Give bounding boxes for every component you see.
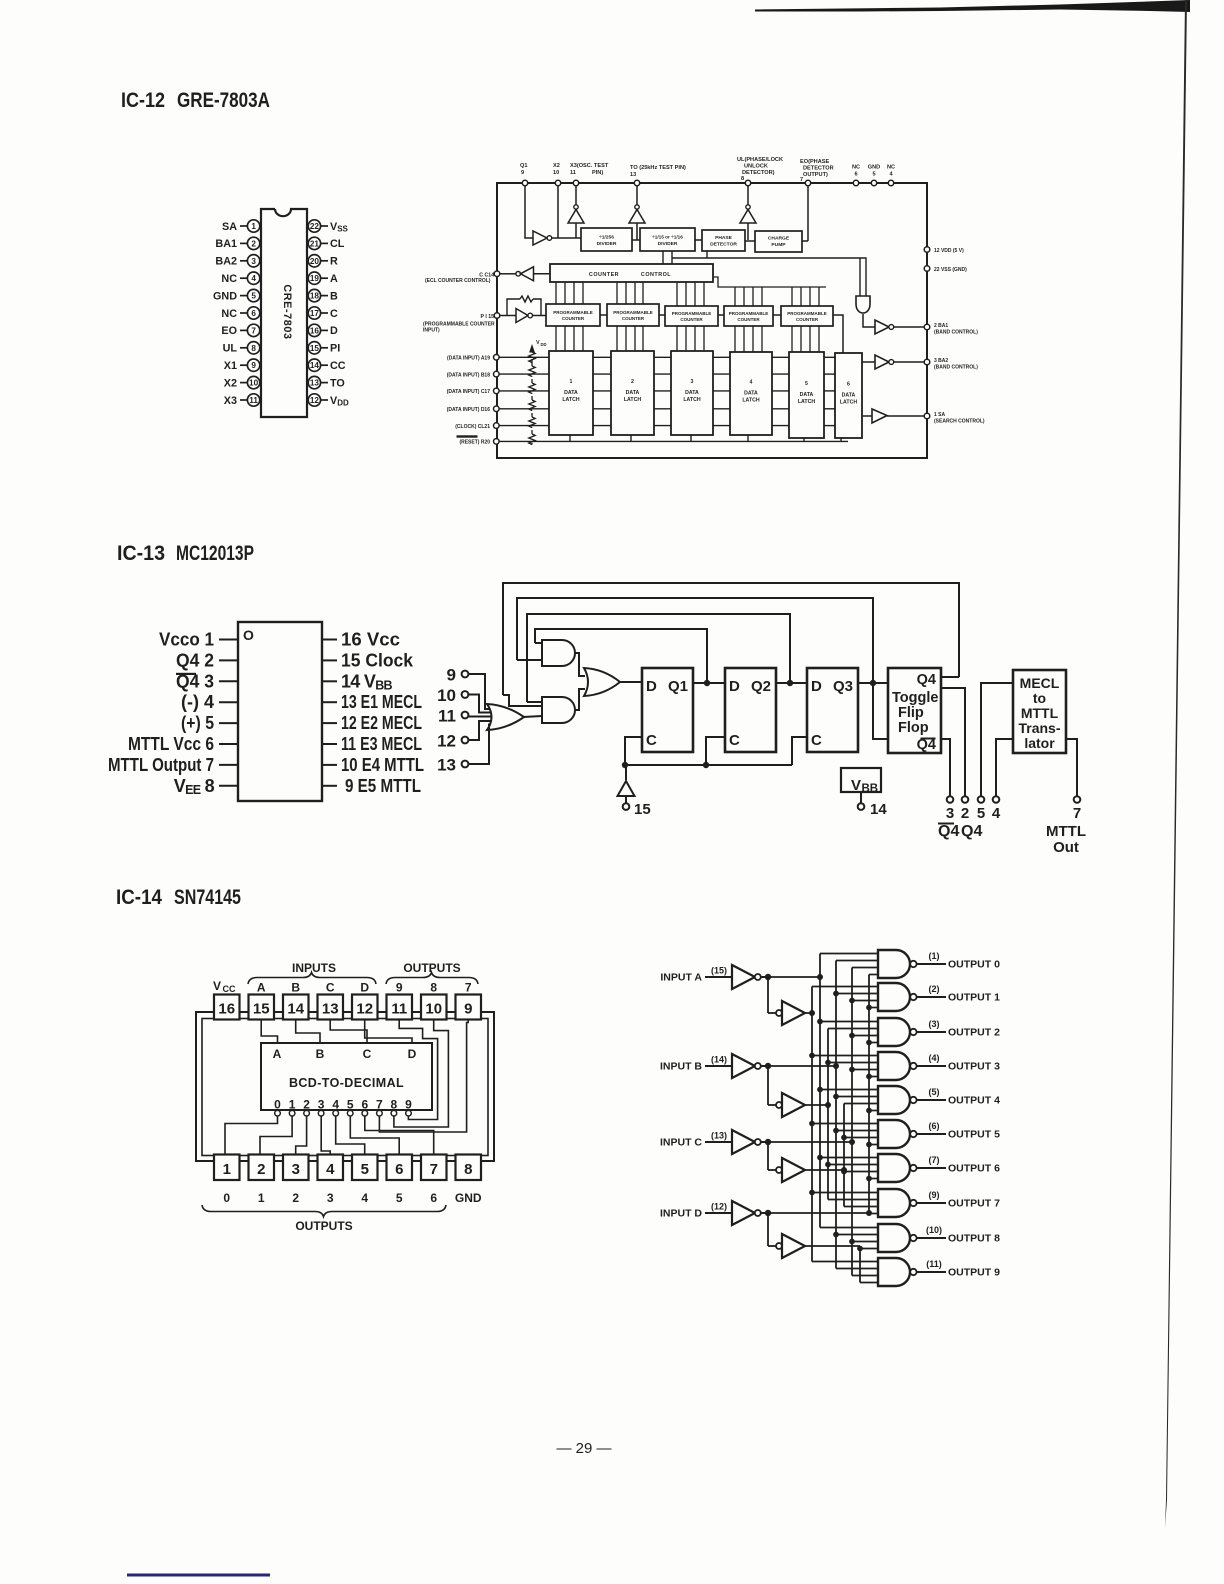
PROGRAMMABLE COUNTER block 4 — [724, 306, 773, 326]
svg-text:COUNTER: COUNTER — [796, 317, 819, 322]
wire tap to gate 2 — [820, 1021, 878, 1023]
decoder output bubble 8 — [391, 1110, 397, 1116]
pin 1 SA — [222, 220, 260, 233]
latch reset stubs — [570, 435, 841, 441]
wire AND gate input 2 — [859, 258, 861, 296]
svg-text:A: A — [257, 981, 266, 995]
output label OUTPUT 1 — [929, 984, 1001, 1004]
output buffer to CC14 — [500, 267, 550, 281]
svg-text:B: B — [330, 290, 338, 302]
svg-text:NC: NC — [221, 273, 237, 285]
VDD rail label — [530, 340, 547, 352]
pin 18 right — [308, 289, 338, 302]
svg-text:9: 9 — [251, 361, 256, 370]
svg-text:12 E2 MECL: 12 E2 MECL — [341, 713, 422, 733]
svg-text:LATCH: LATCH — [840, 400, 857, 406]
svg-text:6: 6 — [395, 1161, 403, 1178]
svg-text:BB: BB — [862, 783, 879, 795]
svg-text:UL(PHASE/LOCK: UL(PHASE/LOCK — [737, 157, 783, 163]
pin box 1 — [214, 1155, 240, 1181]
wire divider2 to phase detector — [695, 239, 702, 241]
wire line A jog to AND2 — [503, 695, 542, 706]
pin 6 NC — [221, 307, 259, 320]
output terminal pin 2 Q4 — [961, 796, 969, 822]
svg-text:BA2: BA2 — [215, 256, 237, 268]
wire pin 13 to OR1 — [468, 725, 490, 765]
pin 17 right — [308, 307, 338, 320]
wire tap to gate 6 — [820, 1157, 878, 1159]
svg-text:D: D — [408, 1047, 417, 1061]
svg-text:Vcco 1: Vcco 1 — [159, 630, 214, 650]
wire UL pin to test buffer — [747, 186, 749, 205]
svg-text:NC: NC — [852, 165, 860, 171]
wire toggle Q4bar to output pin 3 — [941, 739, 950, 796]
DATA LATCH block 4 — [730, 352, 772, 435]
wire toggle Q4 to output pin 2 — [941, 688, 965, 796]
svg-text:5: 5 — [251, 292, 256, 301]
output label OUTPUT 8 — [926, 1225, 1000, 1245]
wire charge pump to EO line — [802, 240, 808, 242]
svg-text:22: 22 — [310, 222, 320, 231]
wire X3 pin to test buffer — [575, 186, 577, 205]
pin 16 right — [308, 324, 338, 337]
svg-text:lator: lator — [1024, 735, 1055, 751]
svg-text:12 VDD (5 V): 12 VDD (5 V) — [934, 248, 964, 254]
svg-text:to: to — [1033, 690, 1046, 706]
svg-text:BCD-TO-DECIMAL: BCD-TO-DECIMAL — [289, 1076, 404, 1090]
wire tap to gate 7 — [812, 1192, 878, 1194]
junction input D node — [765, 1210, 771, 1216]
output label OUTPUT 7 — [929, 1190, 1001, 1210]
wire AND2 output to OR2 — [575, 689, 585, 710]
svg-text:15 Clock: 15 Clock — [341, 650, 414, 670]
svg-text:(-) 4: (-) 4 — [181, 692, 214, 712]
svg-text:5: 5 — [361, 1161, 369, 1178]
wire decoder output 4 to pin 5 — [336, 1116, 365, 1155]
wire PC5 to data latch 6 — [833, 315, 843, 353]
svg-text:Out: Out — [1053, 839, 1079, 856]
resistor feedback on PI input — [507, 296, 541, 316]
svg-text:(12): (12) — [711, 1202, 727, 1212]
svg-text:V: V — [851, 777, 861, 794]
wires bus to programmable counter 4 — [735, 287, 762, 306]
svg-text:2: 2 — [257, 1161, 265, 1178]
pin 3 BA2 — [215, 255, 259, 268]
bus column A complement — [819, 954, 821, 1228]
svg-text:DIVIDER: DIVIDER — [597, 241, 617, 247]
DATA LATCH block 1 — [549, 351, 593, 435]
svg-text:(DATA INPUT) B18: (DATA INPUT) B18 — [447, 372, 490, 378]
reset bus wire — [499, 440, 848, 442]
pin label X3 OSC TEST PIN 11 — [570, 163, 609, 176]
svg-text:22 VSS (GND): 22 VSS (GND) — [934, 267, 967, 273]
input terminal pin 12 — [437, 732, 468, 751]
decoder output bubble 6 — [362, 1110, 368, 1116]
wire X2 down — [557, 186, 559, 238]
decoder output bubble 7 — [377, 1110, 383, 1116]
feedback wire line A from Q4 — [503, 583, 959, 695]
svg-text:NC: NC — [887, 165, 895, 171]
svg-text:12: 12 — [437, 732, 456, 751]
svg-text:GND: GND — [213, 290, 237, 302]
pin 12 right — [308, 394, 349, 408]
pin 4 NC — [221, 272, 259, 285]
svg-text:÷1/256: ÷1/256 — [599, 234, 614, 240]
svg-text:20: 20 — [310, 257, 320, 266]
svg-text:UL: UL — [223, 343, 238, 355]
output terminal pin 4 — [992, 796, 1001, 822]
svg-text:1: 1 — [251, 222, 256, 231]
bus column B complement — [835, 961, 837, 1269]
svg-text:(10): (10) — [926, 1225, 942, 1235]
svg-text:C: C — [326, 981, 335, 995]
svg-text:3 BA2: 3 BA2 — [934, 358, 948, 364]
svg-text:OUTPUT 9: OUTPUT 9 — [948, 1267, 1000, 1279]
OR gate OR1 enable inputs — [487, 704, 524, 730]
svg-text:16: 16 — [218, 1001, 235, 1018]
wire decoder output 1 to pin 2 — [260, 1116, 292, 1155]
svg-text:INPUT C: INPUT C — [660, 1137, 702, 1149]
wire PC4 to PC5 — [773, 314, 781, 316]
wires counter control to programmable counter 2 — [617, 282, 643, 304]
wire decoder output 2 to pin 3 — [296, 1116, 307, 1155]
svg-text:OUTPUT 6: OUTPUT 6 — [948, 1163, 1000, 1175]
wire divider2 to counter control b — [671, 251, 673, 264]
svg-text:A: A — [273, 1047, 282, 1061]
scan artifact page edge line — [1165, 0, 1187, 1528]
svg-text:(ECL COUNTER CONTROL): (ECL COUNTER CONTROL) — [425, 278, 491, 284]
wire input D to second inverter — [767, 1213, 769, 1246]
svg-text:MTTL: MTTL — [1046, 823, 1086, 840]
wire pin 12 to decoder input D — [365, 1020, 412, 1044]
wire tap to gate 8 — [852, 1241, 878, 1243]
svg-text:8: 8 — [391, 1098, 398, 1112]
pin 11 right label — [322, 734, 422, 754]
wire divider1 to divider2 — [632, 239, 640, 241]
test point buffer X3 — [568, 205, 584, 238]
wire toggle Q4 to feedback line A — [941, 676, 959, 678]
wire tap to gate 1 — [812, 986, 878, 988]
svg-text:13 E1 MECL: 13 E1 MECL — [341, 692, 422, 712]
IC-12 block diagram outer boundary — [497, 183, 927, 458]
AND gate output 9 — [878, 1258, 946, 1286]
inverter INPUT C first stage — [732, 1130, 765, 1154]
svg-text:(5): (5) — [929, 1087, 940, 1097]
svg-text:14: 14 — [287, 1001, 304, 1018]
scan artifact bottom blue rule — [127, 1574, 270, 1577]
pin 3 Q4bar — [176, 671, 238, 691]
wire bus to AND gate — [672, 258, 866, 296]
pin 8 VEE — [174, 776, 238, 797]
RESET overline — [457, 435, 478, 437]
pin 15 right label — [322, 650, 414, 670]
OR gate OR2 — [584, 668, 620, 696]
svg-text:(BAND CONTROL): (BAND CONTROL) — [934, 330, 978, 336]
svg-text:(RESET) R20: (RESET) R20 — [459, 440, 490, 446]
svg-text:5: 5 — [977, 805, 985, 822]
divider block 1/256 DIVIDER — [581, 228, 632, 251]
svg-text:OUTPUT 5: OUTPUT 5 — [948, 1129, 1000, 1141]
svg-text:(7): (7) — [929, 1155, 940, 1165]
wire tap to gate 3 — [812, 1055, 878, 1057]
pin 19 right — [308, 272, 338, 285]
output label OUTPUT 2 — [929, 1019, 1001, 1039]
wire Q2 to FF3 D — [776, 682, 807, 684]
clock terminal pin 15 — [623, 801, 651, 818]
AND gate output 1 — [878, 983, 946, 1011]
svg-text:TO: TO — [330, 377, 345, 389]
svg-text:3: 3 — [946, 805, 954, 822]
pin box 11 — [387, 995, 413, 1020]
wire pin 10 to decoder output 8 — [394, 1020, 449, 1128]
svg-text:6: 6 — [361, 1098, 368, 1112]
pin box 12 — [352, 995, 378, 1020]
AND gate band control — [856, 296, 875, 327]
pin 5 GND — [213, 289, 260, 302]
wire tap to gate 5 — [812, 1123, 878, 1125]
pin box 2 — [249, 1155, 275, 1181]
wire tap to gate 8 — [820, 1227, 878, 1229]
wire pin 12 to OR1 — [468, 721, 491, 740]
svg-text:MECL: MECL — [1020, 675, 1060, 691]
junction feed node column A complement — [817, 974, 823, 980]
svg-text:1: 1 — [570, 379, 573, 385]
wire PC2 to PC3 — [659, 314, 665, 316]
svg-text:MTTL Vcc 6: MTTL Vcc 6 — [128, 734, 214, 754]
DATA LATCH block 3 — [671, 351, 713, 435]
junction Q1 node — [704, 680, 710, 686]
svg-text:(CLOCK) CL21: (CLOCK) CL21 — [455, 424, 490, 430]
AND gate output 2 — [878, 1018, 946, 1046]
wire pin 9 to decoder output 7 — [379, 1020, 468, 1133]
svg-text:PROGRAMMABLE: PROGRAMMABLE — [553, 310, 593, 315]
svg-text:7: 7 — [1073, 805, 1081, 822]
pin label UL PHASE/LOCK UNLOCK DETECTOR 8 — [737, 157, 783, 182]
clock input buffer — [618, 765, 635, 803]
output terminal pin 7 MTTL out — [1046, 796, 1086, 856]
input terminal pin 9 — [447, 666, 469, 685]
pin 4 minus — [181, 692, 238, 712]
D flip-flop Q2 — [725, 668, 776, 752]
svg-text:9: 9 — [396, 981, 403, 995]
svg-text:UNLOCK: UNLOCK — [744, 164, 768, 170]
pin 16 right label — [322, 630, 400, 650]
pin terminal (DATA INPUT) B18 — [447, 371, 499, 378]
svg-text:V: V — [213, 979, 221, 993]
wire D complement feed — [768, 1212, 869, 1214]
wire PC3 to PC4 — [718, 314, 724, 316]
svg-text:15: 15 — [634, 801, 651, 818]
svg-text:(BAND CONTROL): (BAND CONTROL) — [934, 365, 978, 371]
svg-text:DD: DD — [541, 342, 547, 347]
junction feed node column B true — [825, 1102, 831, 1108]
svg-text:DATA: DATA — [800, 392, 814, 398]
svg-text:C: C — [330, 308, 338, 320]
PROGRAMMABLE COUNTER block 5 — [781, 306, 833, 326]
wire decoder output 3 to pin 4 — [321, 1116, 330, 1155]
svg-text:7: 7 — [800, 177, 803, 183]
svg-text:Q4 2: Q4 2 — [176, 650, 214, 670]
svg-text:DATA: DATA — [626, 390, 640, 396]
svg-text:DIVIDER: DIVIDER — [658, 241, 678, 247]
wire C complement feed — [768, 1141, 852, 1143]
svg-text:DETECTOR: DETECTOR — [710, 241, 737, 247]
svg-text:7: 7 — [251, 326, 256, 335]
svg-text:4: 4 — [251, 274, 256, 283]
svg-text:CL: CL — [330, 238, 345, 250]
svg-text:4: 4 — [361, 1191, 368, 1205]
label VCC — [213, 979, 236, 994]
svg-text:INPUT D: INPUT D — [660, 1208, 702, 1220]
svg-text:B: B — [291, 981, 300, 995]
AND gate output 7 — [878, 1189, 946, 1217]
svg-text:Q4: Q4 — [961, 823, 982, 840]
BCD-TO-DECIMAL decoder block — [261, 1043, 432, 1110]
svg-text:IC-13: IC-13 — [117, 542, 165, 565]
svg-text:Toggle: Toggle — [892, 690, 938, 706]
svg-text:LATCH: LATCH — [798, 399, 815, 405]
svg-text:IC-14: IC-14 — [116, 886, 162, 909]
svg-text:INPUTS: INPUTS — [292, 961, 336, 975]
svg-text:INPUT B: INPUT B — [660, 1061, 702, 1073]
svg-text:C: C — [646, 732, 657, 749]
bus column D complement — [868, 975, 870, 1214]
pin box 7 — [421, 1155, 447, 1181]
label Q4bar below pin 3 — [938, 823, 959, 841]
svg-text:P I 15: P I 15 — [481, 314, 495, 320]
wire tap to gate 0 — [869, 974, 878, 976]
pin 8 UL — [223, 342, 260, 355]
wire tap to gate 2 — [828, 1028, 878, 1030]
svg-text:Trans-: Trans- — [1018, 720, 1060, 736]
wires programmable counters to data latches — [556, 326, 819, 352]
wire decoder output 5 to pin 6 — [350, 1116, 399, 1155]
AND gate output 0 — [878, 950, 946, 978]
svg-text:COUNTER: COUNTER — [737, 317, 760, 322]
wire tap to gate 2 — [869, 1042, 878, 1044]
wire tap to gate 2 — [852, 1035, 878, 1037]
pin 12 VDD terminal — [924, 247, 964, 254]
test point buffer TO — [629, 205, 645, 240]
svg-text:Q3: Q3 — [833, 678, 853, 695]
svg-text:EO(PHASE: EO(PHASE — [800, 159, 829, 165]
svg-text:R: R — [330, 256, 338, 268]
svg-text:DETECTOR): DETECTOR) — [742, 170, 775, 176]
pin 3 BA2 terminal BAND CONTROL — [924, 358, 978, 371]
pin 2 BA1 terminal BAND CONTROL — [924, 323, 978, 336]
svg-text:Q1: Q1 — [520, 163, 527, 169]
svg-text:OUTPUT 4: OUTPUT 4 — [948, 1095, 1000, 1107]
feedback wire line D from Q1 — [535, 629, 707, 683]
svg-text:DETECTOR: DETECTOR — [803, 166, 834, 172]
CHARGE PUMP block — [755, 231, 802, 252]
svg-text:1: 1 — [223, 1161, 231, 1178]
svg-text:16: 16 — [310, 326, 320, 335]
wire clock to FF1 C — [625, 737, 642, 765]
svg-text:OUTPUT 7: OUTPUT 7 — [948, 1198, 1000, 1210]
svg-text:12: 12 — [356, 1001, 373, 1018]
svg-text:X3(OSC. TEST: X3(OSC. TEST — [570, 163, 609, 169]
divider block 1/15 or 1/16 DIVIDER — [640, 228, 695, 251]
wire line B to AND1 — [517, 659, 542, 661]
svg-text:(1): (1) — [929, 951, 940, 961]
wire decoder output 6 to pin 7 — [365, 1116, 434, 1155]
wire line C to AND2 — [527, 701, 542, 703]
svg-text:3: 3 — [691, 379, 694, 385]
svg-text:BA1: BA1 — [215, 238, 237, 250]
wires counter control to programmable counter 1 — [556, 282, 583, 304]
wire B complement feed — [768, 1065, 836, 1067]
wire tap to gate 8 — [836, 1234, 878, 1236]
MECL to MTTL translator block — [1013, 670, 1066, 753]
AND gate output 8 — [878, 1224, 946, 1252]
wire line D to AND1 — [535, 642, 542, 644]
wire input B to second inverter — [767, 1066, 769, 1105]
pin 10 X2 — [224, 376, 260, 389]
svg-text:(13): (13) — [711, 1131, 727, 1141]
wire tap to gate 1 — [852, 1000, 878, 1002]
svg-text:2: 2 — [303, 1098, 310, 1112]
svg-text:OUTPUT 8: OUTPUT 8 — [948, 1233, 1000, 1245]
svg-text:9: 9 — [464, 1001, 472, 1018]
decoder output bubble 9 — [406, 1110, 412, 1116]
wire pin 10 to OR1 — [468, 695, 491, 713]
AND gate output 3 — [878, 1052, 946, 1080]
wire tap to gate 1 — [869, 1007, 878, 1009]
wire AND1 output to OR2 — [575, 653, 585, 676]
DATA LATCH block 2 — [611, 351, 654, 435]
svg-text:(6): (6) — [929, 1121, 940, 1131]
input label INPUT D (12) — [660, 1202, 732, 1220]
wire input A to second inverter — [767, 977, 769, 1013]
wire pin 5 to MECL translator — [981, 683, 1013, 796]
svg-text:14: 14 — [310, 361, 320, 370]
svg-text:2: 2 — [292, 1191, 299, 1205]
svg-text:2: 2 — [251, 239, 256, 248]
PROGRAMMABLE COUNTER block 2 — [607, 304, 659, 326]
svg-text:9: 9 — [521, 170, 524, 176]
bus column B true — [827, 1029, 829, 1200]
svg-text:GND: GND — [455, 1191, 482, 1205]
wire tap to gate 3 — [828, 1062, 878, 1064]
wire phase detector branch down — [706, 251, 708, 258]
svg-text:4: 4 — [750, 380, 753, 386]
pin 13 right label — [322, 692, 422, 712]
svg-text:CHARGE: CHARGE — [768, 235, 790, 241]
svg-text:D: D — [811, 678, 822, 695]
decoder output bubble 2 — [304, 1110, 310, 1116]
wire pin 11 to decoder output 9 — [399, 1020, 437, 1120]
pin 9 X1 — [224, 359, 260, 372]
svg-text:GRE-7803A: GRE-7803A — [177, 89, 270, 112]
pin terminal (CLOCK) CL21 — [455, 423, 499, 430]
svg-text:7: 7 — [430, 1161, 438, 1178]
junction input C node — [765, 1139, 771, 1145]
svg-text:Q4: Q4 — [938, 823, 959, 840]
svg-text:Q2: Q2 — [751, 678, 771, 695]
pull-up resistor chain on VDD rail — [529, 350, 535, 445]
output buffer SA — [872, 409, 924, 423]
wire Q1 pin to buffer input — [525, 186, 533, 238]
top pin terminals — [522, 180, 893, 185]
svg-text:C: C — [363, 1047, 372, 1061]
svg-text:DATA: DATA — [744, 391, 758, 397]
wire tap to gate 8 — [860, 1248, 878, 1250]
input label INPUT C (13) — [660, 1131, 732, 1149]
input buffer PI — [500, 309, 546, 323]
junction feed node column D complement — [866, 1210, 872, 1216]
output label OUTPUT 0 — [929, 951, 1001, 971]
